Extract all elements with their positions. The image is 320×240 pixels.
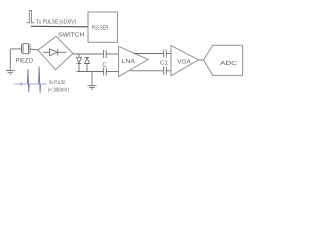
- svg-text:Rx PULSE: Rx PULSE: [49, 80, 66, 86]
- svg-text:C1: C1: [160, 60, 169, 67]
- svg-text:PIEZO: PIEZO: [16, 57, 34, 64]
- svg-text:C: C: [102, 61, 107, 68]
- svg-text:(< 300mV): (< 300mV): [48, 87, 69, 93]
- svg-text:Tx PULSE (x100V): Tx PULSE (x100V): [36, 18, 76, 25]
- svg-text:VGA: VGA: [177, 59, 191, 66]
- svg-text:PULSER: PULSER: [92, 25, 109, 32]
- svg-text:ADC: ADC: [220, 60, 238, 67]
- svg-text:LNA: LNA: [122, 58, 136, 65]
- svg-text:SWITCH: SWITCH: [58, 32, 85, 39]
